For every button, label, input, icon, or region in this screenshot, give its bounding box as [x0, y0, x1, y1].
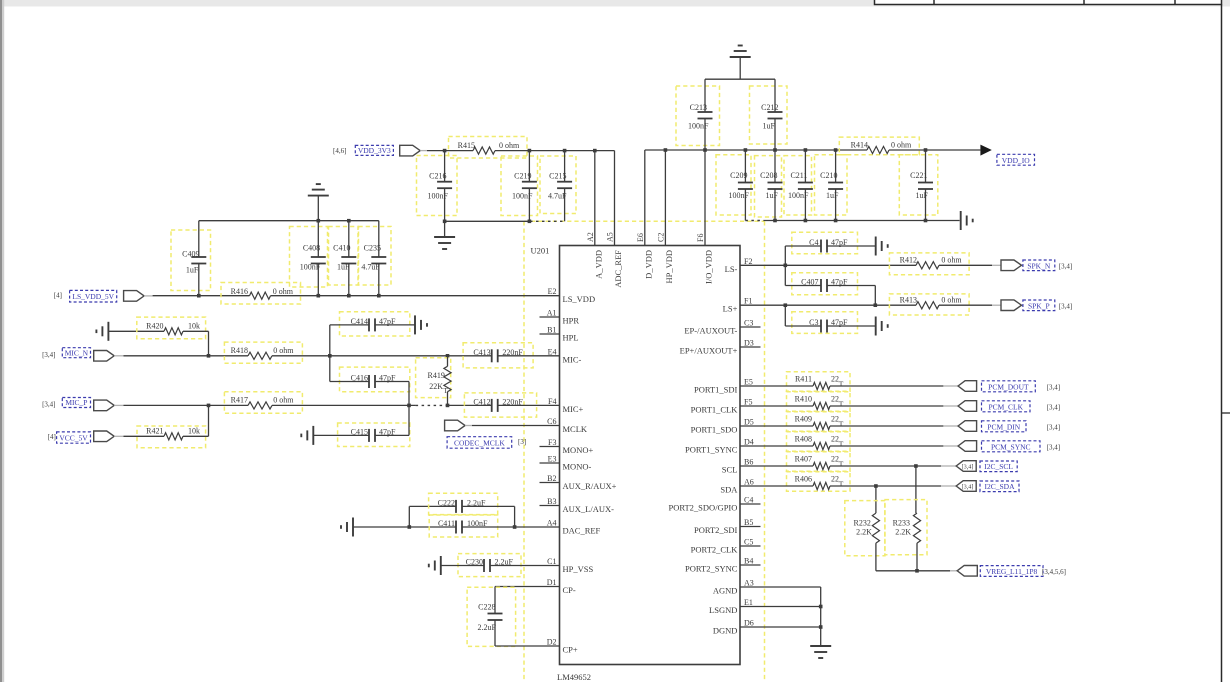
net label PCM_SYNC [982, 441, 1041, 452]
svg-text:SPK_N: SPK_N [1027, 261, 1051, 270]
capacitor C416 [340, 367, 410, 392]
svg-text:100nF: 100nF [688, 122, 709, 131]
svg-text:C1: C1 [547, 557, 556, 566]
capacitor C209 [716, 155, 751, 215]
svg-text:LS_VDD_5V: LS_VDD_5V [72, 292, 114, 301]
net label PCM_CLK [982, 401, 1031, 412]
svg-text:PORT2_SDO/GPIO: PORT2_SDO/GPIO [668, 503, 737, 513]
svg-text:B4: B4 [744, 557, 753, 566]
wire F6 pin riser [704, 150, 706, 246]
ground left rail [444, 221, 446, 237]
svg-text:B2: B2 [547, 474, 556, 483]
wire CP- to C228 [495, 586, 560, 588]
wire R420 to MIC_N [183, 330, 209, 332]
net label CODEC_MCLK [447, 437, 512, 449]
wire VREG row [876, 570, 950, 572]
svg-text:1uF: 1uF [766, 191, 779, 200]
capacitor C411 [429, 515, 498, 537]
svg-text:U201: U201 [531, 246, 550, 256]
wire R408 row [740, 445, 813, 447]
svg-text:R410: R410 [795, 395, 812, 404]
pin B4 PORT2_SYNC [740, 564, 761, 566]
wire C4 C407 riser [784, 246, 786, 286]
svg-text:22: 22 [831, 475, 839, 484]
net label VDD_IO [997, 154, 1035, 165]
pin B5 PORT2_SDI [740, 526, 761, 528]
net label I2C_SDA [980, 481, 1019, 492]
svg-text:0 ohm: 0 ohm [273, 346, 294, 355]
resistor R407 [787, 452, 851, 472]
wire A2 pin riser [594, 151, 596, 246]
resistor R418 [224, 342, 302, 363]
svg-text:I2C_SCL: I2C_SCL [984, 462, 1013, 471]
wire C411 to pin A4 [462, 526, 560, 528]
resistor R413 [889, 294, 969, 315]
svg-text:T: T [839, 420, 844, 429]
svg-text:4.7uF: 4.7uF [548, 191, 567, 200]
svg-text:2.2K: 2.2K [856, 528, 872, 537]
svg-text:SCL: SCL [722, 465, 738, 475]
capacitor C228 [467, 587, 515, 646]
svg-text:VDD_3V3: VDD_3V3 [358, 146, 391, 155]
pin C3 EP-/AUXOUT- [740, 326, 761, 328]
wire MIC_N row [114, 355, 123, 357]
wire ground to C213 C212 [705, 78, 775, 80]
svg-text:PORT1_CLK: PORT1_CLK [691, 405, 739, 415]
capacitor C212 [750, 86, 788, 144]
svg-text:C235: C235 [364, 244, 381, 253]
svg-text:T: T [839, 380, 844, 389]
resistor R411 [787, 372, 851, 392]
svg-text:MIC_P: MIC_P [65, 398, 87, 407]
svg-text:B1: B1 [547, 326, 556, 335]
svg-text:F6: F6 [696, 234, 705, 242]
capacitor C410 [329, 227, 359, 286]
svg-text:E6: E6 [636, 233, 645, 242]
svg-text:4.7uF: 4.7uF [361, 263, 380, 272]
wire DGND row [740, 626, 821, 628]
svg-text:C415: C415 [351, 427, 368, 436]
net label PCM_DOUT [982, 381, 1036, 392]
svg-text:PORT2_SDI: PORT2_SDI [694, 525, 738, 535]
wire VCC_5V to R421 [114, 435, 123, 437]
svg-text:A1: A1 [547, 309, 557, 318]
svg-text:R406: R406 [795, 475, 812, 484]
svg-text:MIC-: MIC- [563, 354, 582, 364]
svg-text:47pF: 47pF [831, 238, 848, 247]
svg-text:0 ohm: 0 ohm [499, 141, 520, 150]
highlight region boundary [523, 221, 525, 682]
wire R417 to C412 [272, 404, 416, 406]
off-page connector SPK_N [1001, 260, 1022, 271]
svg-text:22: 22 [831, 415, 839, 424]
ground right of bus [960, 211, 962, 230]
svg-text:1uF: 1uF [826, 191, 839, 200]
svg-text:MIC+: MIC+ [563, 404, 584, 414]
svg-text:[4]: [4] [48, 433, 56, 441]
svg-text:[3,4,5,6]: [3,4,5,6] [1042, 568, 1066, 576]
svg-text:[3,4]: [3,4] [1059, 302, 1072, 310]
svg-text:PORT1_SDI: PORT1_SDI [694, 385, 738, 395]
svg-text:C408: C408 [303, 244, 320, 253]
svg-text:R417: R417 [231, 396, 248, 405]
svg-text:E5: E5 [744, 378, 753, 387]
ground C3 [875, 317, 877, 336]
ground C414 [414, 315, 416, 334]
pin D3 EP+/AUXOUT+ [740, 346, 761, 348]
wire bypass top rail [199, 220, 379, 222]
svg-text:MCLK: MCLK [563, 424, 588, 434]
net label VDD_3V3 [355, 145, 393, 155]
wire C407 to LS+ [874, 286, 876, 306]
ground top of C213 C212 [730, 56, 751, 58]
title block table top right [875, 0, 1222, 5]
off-page connector VDD_3V3 [400, 145, 421, 156]
capacitor C235 [359, 227, 392, 286]
svg-text:[3,4]: [3,4] [962, 484, 974, 491]
wire C222 to A4 node [462, 505, 515, 507]
svg-text:C216: C216 [429, 171, 446, 180]
op IC U201 LM49652 body [560, 246, 741, 665]
capacitor C222 branch [408, 506, 410, 527]
wire right ground bus [745, 220, 763, 222]
svg-text:R419: R419 [428, 371, 445, 380]
off-page connector MIC_P [94, 400, 115, 411]
svg-text:A3: A3 [744, 579, 754, 588]
wire SDA riser to R232 [875, 486, 877, 513]
sheet border zone tick [1222, 412, 1230, 414]
svg-text:HPR: HPR [563, 316, 580, 326]
svg-text:[3]: [3] [518, 438, 526, 446]
svg-text:D5: D5 [744, 418, 754, 427]
svg-text:1uF: 1uF [186, 265, 199, 274]
svg-text:C228: C228 [478, 602, 495, 611]
resistor R420 [137, 317, 206, 339]
svg-text:PCM_DIN: PCM_DIN [987, 422, 1021, 431]
wire SCL riser to R233 [915, 466, 917, 513]
svg-text:C2: C2 [656, 233, 665, 242]
net label MIC_P [62, 398, 90, 408]
wire MIC_P row [114, 404, 123, 406]
resistor R419 [416, 358, 451, 398]
wire R414 to arrow [889, 149, 980, 151]
svg-text:0 ohm: 0 ohm [891, 141, 912, 150]
wire CODEC_MCLK to pin C6 [465, 425, 472, 427]
svg-text:C6: C6 [547, 417, 556, 426]
capacitor C216 [417, 156, 458, 216]
off-page connector I2C_SCL [956, 461, 976, 472]
svg-text:AGND: AGND [713, 586, 738, 596]
svg-text:100nF: 100nF [300, 263, 321, 272]
svg-text:R409: R409 [795, 415, 812, 424]
svg-text:CP-: CP- [563, 585, 576, 595]
svg-text:C407: C407 [801, 278, 818, 287]
svg-text:EP+/AUXOUT+: EP+/AUXOUT+ [680, 346, 738, 356]
wire LS- row [740, 264, 916, 266]
net label VREG_L11_1P8 [980, 566, 1043, 577]
wire R406 row [740, 485, 813, 487]
wire R409 row [740, 425, 813, 427]
net label VCC_5V [57, 432, 91, 443]
svg-text:A6: A6 [744, 478, 754, 487]
svg-text:T: T [839, 480, 844, 489]
svg-text:C213: C213 [690, 103, 707, 112]
pin C4 PORT2_SDO/GPIO [740, 503, 761, 505]
svg-text:C4: C4 [809, 238, 818, 247]
svg-text:R232: R232 [854, 519, 871, 528]
pin E3 MONO- [540, 462, 560, 464]
svg-text:22: 22 [831, 455, 839, 464]
capacitor C210 [815, 155, 848, 215]
svg-text:22K: 22K [429, 382, 443, 391]
svg-text:C222: C222 [438, 498, 455, 507]
resistor R416 [221, 283, 301, 305]
wire AGND row [740, 586, 821, 588]
svg-text:MONO+: MONO+ [563, 445, 594, 455]
wire LS+ row [740, 304, 916, 306]
resistor R414 [839, 137, 919, 155]
svg-text:PORT2_CLK: PORT2_CLK [691, 545, 739, 555]
svg-text:[4]: [4] [54, 291, 62, 299]
svg-text:[3,4]: [3,4] [1047, 443, 1060, 451]
svg-text:B6: B6 [744, 458, 753, 467]
svg-text:C219: C219 [514, 171, 531, 180]
svg-text:C414: C414 [351, 317, 368, 326]
svg-text:A5: A5 [606, 232, 615, 242]
svg-text:22: 22 [831, 375, 839, 384]
wire C416 to MIC_P [408, 382, 410, 406]
svg-text:AUX_L/AUX-: AUX_L/AUX- [563, 504, 615, 514]
resistor R417 [224, 392, 302, 414]
svg-text:100nF: 100nF [788, 191, 809, 200]
pin B2 AUX_R/AUX+ [540, 482, 560, 484]
svg-text:1uF: 1uF [337, 263, 350, 272]
svg-text:0 ohm: 0 ohm [273, 396, 294, 405]
wire ground to C411 [353, 526, 456, 528]
svg-text:D2: D2 [547, 638, 557, 647]
svg-text:LM49652: LM49652 [557, 672, 591, 682]
svg-text:PCM_DOUT: PCM_DOUT [988, 382, 1029, 391]
svg-text:100nF: 100nF [512, 191, 533, 200]
wire C228 to CP+ [494, 620, 496, 646]
svg-text:I/O_VDD: I/O_VDD [704, 250, 714, 284]
svg-text:C410: C410 [333, 244, 350, 253]
wire R411 row [740, 385, 813, 387]
wire right VDD rail [645, 149, 867, 151]
svg-text:PORT2_SYNC: PORT2_SYNC [685, 564, 738, 574]
svg-text:C4: C4 [744, 496, 753, 505]
wire R413 to SPK_P [939, 304, 992, 306]
wire R418 to C413 [272, 355, 492, 357]
off-page connector PCM_CLK [958, 401, 977, 412]
pin C5 PORT2_CLK [740, 545, 761, 547]
svg-text:VDD_IO: VDD_IO [1002, 156, 1030, 165]
net label SPK_N [1023, 260, 1055, 271]
wire A5 pin riser [614, 151, 616, 246]
svg-text:R416: R416 [231, 287, 248, 296]
svg-text:DGND: DGND [713, 626, 738, 636]
wire C3 riser [784, 305, 786, 326]
svg-text:PCM_CLK: PCM_CLK [988, 402, 1023, 411]
ground DAC_REF row [352, 518, 354, 537]
svg-text:[3,4]: [3,4] [1047, 383, 1060, 391]
svg-text:D1: D1 [547, 578, 557, 587]
resistor R233 [885, 500, 927, 555]
resistor R415 [449, 137, 528, 159]
capacitor C4 [792, 232, 858, 254]
svg-text:R407: R407 [795, 455, 812, 464]
off-page connector CODEC_MCLK [445, 420, 466, 431]
svg-text:LS+: LS+ [723, 304, 738, 314]
svg-text:0 ohm: 0 ohm [273, 287, 294, 296]
svg-text:E1: E1 [744, 598, 753, 607]
svg-text:D4: D4 [744, 438, 754, 447]
capacitor C215 [540, 156, 576, 214]
wire R410 row [740, 405, 813, 407]
capacitor C408 [290, 227, 328, 288]
capacitor C219 [501, 156, 538, 216]
svg-text:R418: R418 [231, 346, 248, 355]
svg-text:100nF: 100nF [729, 191, 750, 200]
svg-text:2.2uF: 2.2uF [477, 623, 496, 632]
svg-text:47pF: 47pF [379, 374, 396, 383]
ground HP_VSS row [440, 556, 442, 575]
svg-text:R412: R412 [900, 256, 917, 265]
svg-text:E4: E4 [548, 347, 557, 356]
svg-text:HP_VDD: HP_VDD [664, 250, 674, 284]
capacitor C409 [171, 230, 211, 291]
off-page connector PCM_DOUT [958, 381, 977, 392]
left grey strip [0, 0, 2, 682]
wire VDD_3V3 to rail [420, 150, 427, 152]
pin B1 HPL [540, 333, 560, 335]
svg-text:10k: 10k [188, 427, 200, 436]
svg-text:1uF: 1uF [916, 191, 929, 200]
svg-text:AUX_R/AUX+: AUX_R/AUX+ [563, 481, 617, 491]
wire ground to R420 [108, 330, 164, 332]
svg-text:C3: C3 [809, 318, 818, 327]
svg-text:F1: F1 [744, 297, 752, 306]
svg-text:D_VDD: D_VDD [643, 250, 653, 279]
capacitor C412 [464, 393, 536, 417]
svg-text:[3,4]: [3,4] [1047, 423, 1060, 431]
svg-text:B3: B3 [547, 497, 556, 506]
capacitor C415 [338, 423, 410, 447]
svg-text:ADC_REF: ADC_REF [613, 250, 623, 288]
svg-text:C212: C212 [761, 103, 778, 112]
svg-text:R421: R421 [146, 427, 163, 436]
off-page connector VREG_L11_1P8 [957, 566, 977, 577]
svg-text:[3,4]: [3,4] [1059, 262, 1072, 270]
wire R421 to MIC_P [183, 435, 209, 437]
capacitor C3 [792, 312, 858, 334]
svg-text:A2: A2 [586, 232, 595, 242]
wire left ground bus [445, 220, 530, 222]
resistor R410 [787, 392, 851, 412]
svg-text:HPL: HPL [563, 333, 579, 343]
svg-text:0 ohm: 0 ohm [941, 256, 962, 265]
svg-text:PORT1_SDO: PORT1_SDO [691, 425, 738, 435]
svg-text:DAC_REF: DAC_REF [563, 526, 601, 536]
top grey band [0, 0, 1230, 7]
wire LS_VDD_5V to R416 [144, 295, 152, 297]
svg-text:EP-/AUXOUT-: EP-/AUXOUT- [684, 326, 737, 336]
svg-text:C209: C209 [730, 171, 747, 180]
svg-text:B5: B5 [744, 518, 753, 527]
svg-text:E3: E3 [548, 455, 557, 464]
svg-text:LS_VDD: LS_VDD [563, 294, 596, 304]
svg-text:SPK_P: SPK_P [1028, 301, 1050, 310]
svg-text:100nF: 100nF [428, 191, 449, 200]
svg-text:T: T [839, 400, 844, 409]
off-page connector VCC_5V [94, 431, 115, 442]
svg-text:47pF: 47pF [379, 317, 396, 326]
svg-text:47pF: 47pF [831, 318, 848, 327]
svg-text:F4: F4 [548, 397, 556, 406]
capacitor C413 [463, 343, 533, 368]
svg-text:C409: C409 [182, 249, 199, 258]
capacitor C407 [792, 273, 858, 295]
wire R416 to pin E2 [271, 295, 560, 297]
off-page connector PCM_DIN [958, 421, 977, 432]
svg-text:C3: C3 [744, 319, 753, 328]
svg-text:PORT1_SYNC: PORT1_SYNC [685, 445, 738, 455]
pin F3 MONO+ [540, 446, 560, 448]
resistor R421 [137, 426, 206, 448]
wire C412 to pin F4 [498, 404, 560, 406]
svg-text:T: T [839, 440, 844, 449]
svg-text:CODEC_MCLK: CODEC_MCLK [454, 439, 505, 448]
svg-text:[3,4]: [3,4] [42, 400, 55, 408]
svg-text:2.2K: 2.2K [895, 528, 911, 537]
off-page connector SPK_P [1001, 300, 1022, 311]
svg-text:R413: R413 [900, 296, 917, 305]
svg-text:C416: C416 [351, 374, 368, 383]
svg-text:VCC_5V: VCC_5V [59, 433, 88, 442]
svg-text:C210: C210 [820, 171, 837, 180]
svg-text:A_VDD: A_VDD [593, 250, 603, 279]
off-page connector MIC_N [94, 351, 115, 362]
svg-text:C208: C208 [760, 171, 777, 180]
wire R407 row [740, 465, 813, 467]
wire C230 to pin C1 [490, 565, 560, 567]
svg-text:[3,4]: [3,4] [962, 464, 974, 471]
svg-text:E2: E2 [548, 287, 557, 296]
svg-text:C412: C412 [473, 397, 490, 406]
wire ground bus riser [820, 587, 822, 646]
net label SPK_P [1023, 300, 1055, 311]
pin A1 HPR [540, 316, 560, 318]
svg-text:47pF: 47pF [379, 427, 396, 436]
svg-text:0 ohm: 0 ohm [941, 296, 962, 305]
wire LSGND row [740, 606, 821, 608]
wire C415 to MIC_P [408, 405, 410, 435]
capacitor C213 [676, 86, 720, 146]
svg-text:1uF: 1uF [763, 122, 776, 131]
svg-text:F3: F3 [548, 438, 556, 447]
ground above C408 [308, 195, 329, 197]
svg-text:22: 22 [831, 435, 839, 444]
pin B3 AUX_L/AUX- [540, 505, 560, 507]
capacitor C221 [899, 155, 938, 215]
svg-text:R411: R411 [795, 375, 812, 384]
svg-text:HP_VSS: HP_VSS [563, 564, 594, 574]
svg-text:[4,6]: [4,6] [333, 147, 346, 155]
wire C2 pin riser [664, 150, 666, 246]
resistor R406 [787, 472, 851, 492]
svg-text:CP+: CP+ [563, 645, 578, 655]
svg-text:C215: C215 [549, 171, 566, 180]
